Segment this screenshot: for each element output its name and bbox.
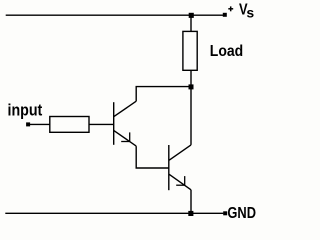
svg-text:input: input xyxy=(8,102,43,120)
node: collector junction (Load / Q1 collector / Q2 collector) xyxy=(189,84,194,89)
transistor Q2 (NPN, output stage) xyxy=(169,145,191,190)
svg-text:GND: GND xyxy=(227,205,256,222)
wire: Q2 collector up to collector node xyxy=(190,87,192,145)
wire: Load resistor down to collector node xyxy=(190,70,192,87)
node: junction of rail and Load (top) xyxy=(189,13,194,18)
wire: base resistor to Q1 base xyxy=(89,123,114,125)
wire: +Vs top supply rail xyxy=(6,14,223,16)
resistor Load xyxy=(183,31,197,70)
wire: input terminal to base resistor xyxy=(30,123,50,125)
terminal +Vs xyxy=(223,13,227,17)
wire: Q2 emitter down to ground rail xyxy=(190,190,192,214)
wire: Q1 emitter down and right to Q2 base xyxy=(136,146,169,168)
label + (polarity sign) xyxy=(228,6,233,11)
wire: rail down to Load resistor xyxy=(190,15,192,31)
transistor Q1 (NPN, input stage) xyxy=(114,101,137,146)
resistor (base resistor) xyxy=(50,117,89,133)
wire: collector node left and down to Q1 collector xyxy=(136,87,191,102)
svg-text:Load: Load xyxy=(210,43,243,60)
terminal GND xyxy=(223,211,227,215)
terminal input xyxy=(26,122,30,126)
svg-text:s: s xyxy=(246,5,254,20)
label Vs xyxy=(239,2,254,21)
wire: GND bottom rail xyxy=(5,212,223,214)
node: junction of Q2 emitter and ground rail xyxy=(188,211,193,216)
